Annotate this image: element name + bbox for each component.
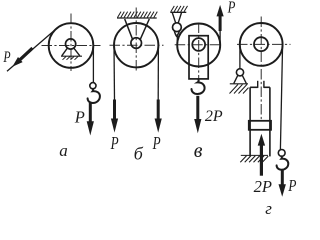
crossbar g (249, 121, 271, 130)
pulley B wheel (114, 23, 158, 67)
svg-text:в: в (194, 140, 203, 162)
svg-text:2P: 2P (205, 108, 223, 125)
svg-text:2P: 2P (254, 177, 272, 196)
force P arrow down (b right) (155, 100, 162, 133)
ceiling line b (117, 17, 157, 19)
pulley A support triangle (61, 48, 82, 56)
anchor triangle g (230, 75, 248, 84)
pulley A axle (66, 39, 76, 49)
wire rope v right (219, 30, 221, 46)
svg-text:а: а (59, 141, 68, 160)
hook v under cage (192, 79, 205, 94)
pulley A ground hatch (63, 57, 79, 60)
ceiling hatch b (118, 12, 158, 18)
anchor hatch g (230, 84, 249, 93)
ring v (173, 23, 182, 32)
svg-text:P: P (152, 133, 161, 153)
ground hatch g (240, 156, 268, 163)
pulley D centerlines (237, 17, 291, 121)
pulley B axle (131, 38, 142, 49)
pulley A wheel (49, 23, 94, 68)
pulley B centerlines (110, 8, 164, 73)
hook D eye (278, 150, 285, 157)
svg-text:P: P (110, 133, 119, 153)
svg-text:P: P (74, 107, 85, 126)
bracket legs v (172, 13, 181, 23)
wire rope B left (113, 45, 116, 100)
pulley C cage rectangle (189, 36, 208, 79)
wire rope D left (239, 44, 241, 69)
svg-text:P: P (3, 49, 11, 66)
pulley C centerlines (175, 23, 223, 80)
wire rope A left (7, 30, 55, 72)
hook D body (277, 156, 289, 170)
rope hook into ring v (174, 30, 179, 37)
wire rope A right (92, 45, 94, 83)
wire rope D right (280, 44, 282, 149)
yoke sleeve g (250, 81, 270, 157)
anchor ring g (236, 69, 243, 76)
force 2P arrow up (g) (258, 134, 265, 176)
pulley A centerlines (42, 14, 101, 72)
ceiling line v (170, 11, 186, 13)
hook A eye (90, 83, 96, 89)
svg-text:б: б (134, 144, 144, 164)
ground line g (241, 154, 268, 156)
ceiling hatch v (171, 6, 188, 12)
bracket legs b (125, 19, 150, 40)
pulley C axle (192, 38, 205, 51)
force P arrow up (v) (217, 5, 224, 31)
hook A body (88, 89, 100, 103)
wire rope B right (157, 45, 159, 100)
pulley D axle (254, 37, 268, 51)
svg-text:P: P (227, 0, 236, 16)
wire rope v left (176, 35, 178, 46)
force P arrow down (part a) (87, 103, 94, 136)
pulley C wheel (177, 24, 220, 67)
force P arrow on left rope A (12, 47, 33, 67)
svg-text:г: г (265, 199, 272, 218)
svg-text:P: P (287, 176, 296, 195)
force 2P arrow down (v) (194, 96, 201, 133)
force P arrow down (g) (279, 169, 286, 197)
force P arrow down (b left) (111, 100, 118, 133)
pulley D wheel (240, 23, 283, 66)
